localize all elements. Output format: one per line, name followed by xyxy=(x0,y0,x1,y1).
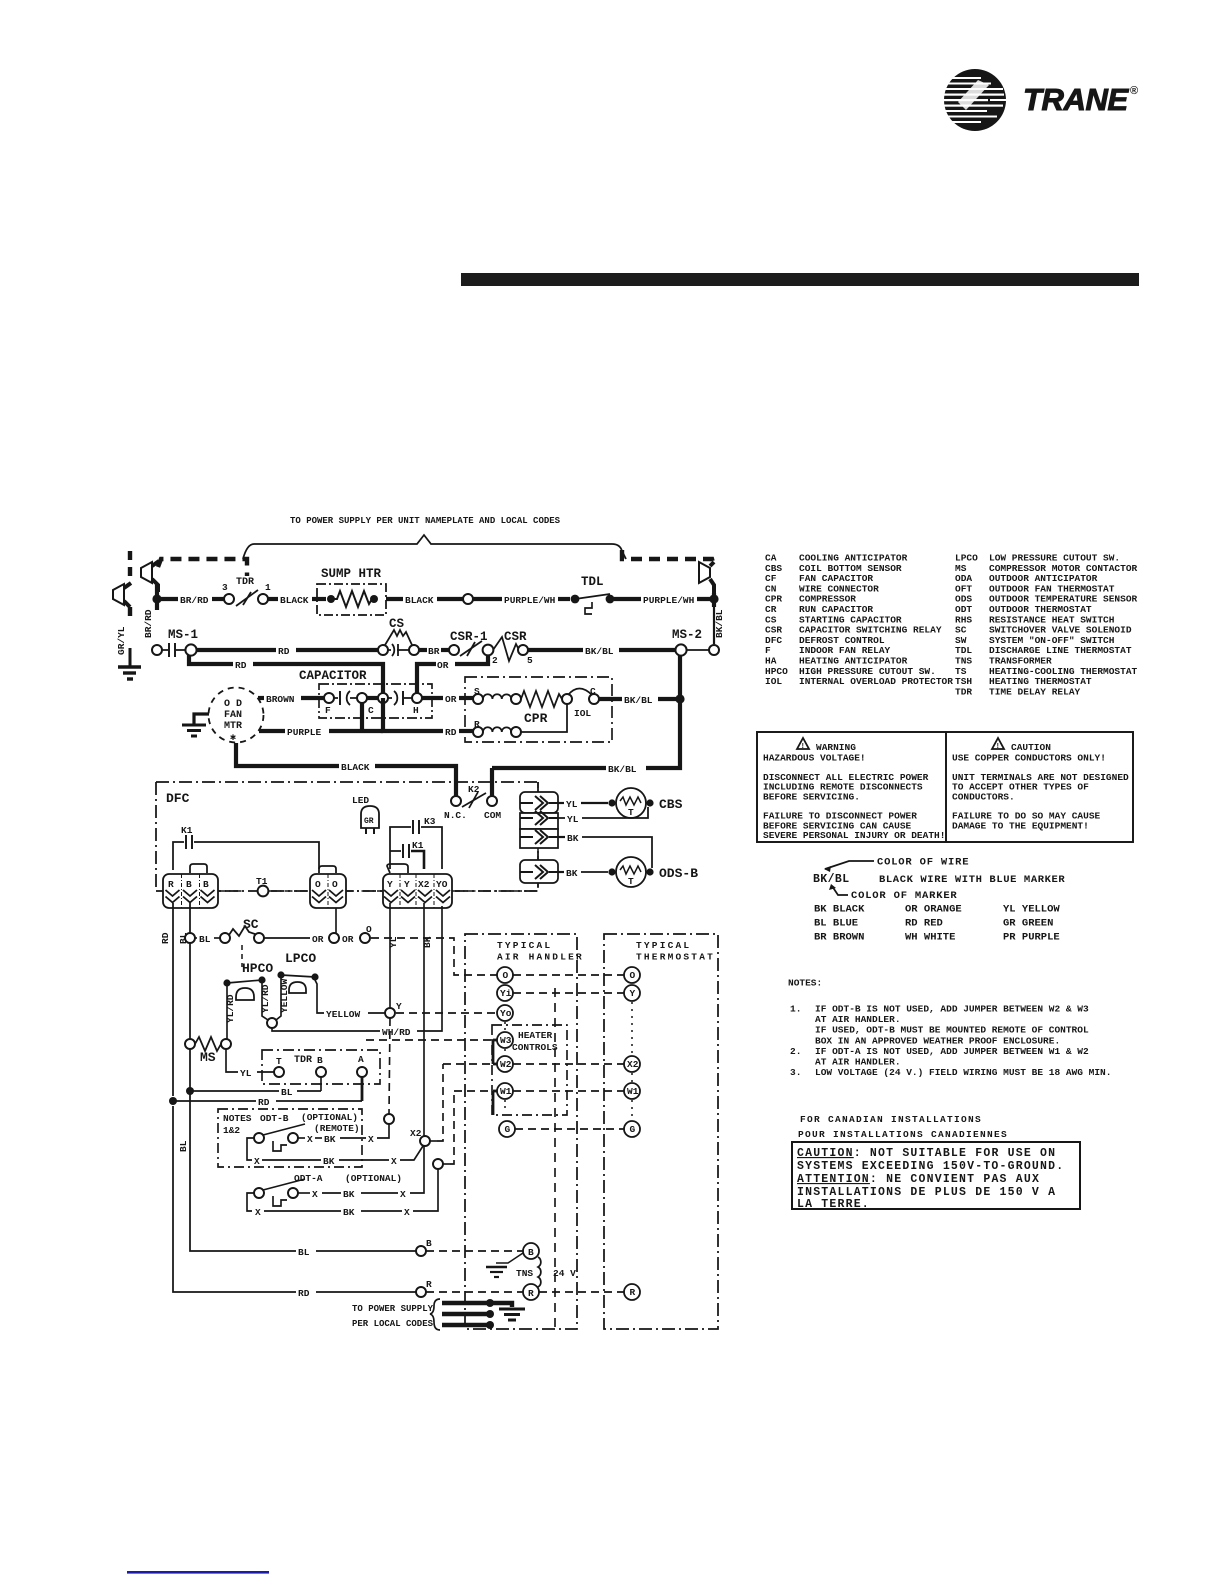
svg-text:(OPTIONAL): (OPTIONAL) xyxy=(301,1112,358,1123)
svg-text:TIME DELAY RELAY: TIME DELAY RELAY xyxy=(989,686,1081,697)
svg-text:BK: BK xyxy=(567,833,579,844)
contactor contact MS-2 xyxy=(672,628,719,656)
wire: BK/BL to MS-2 xyxy=(528,648,583,652)
wire: BLACK to sump heater xyxy=(268,597,278,601)
svg-text:TNS: TNS xyxy=(516,1268,533,1279)
wire: W2 to X2 dashed xyxy=(443,1063,624,1065)
DIAG_MID xyxy=(152,617,719,796)
svg-text:X2: X2 xyxy=(410,1128,422,1139)
svg-text:O: O xyxy=(630,970,636,981)
TRANE logo xyxy=(940,69,1138,131)
svg-text:CONTROLS: CONTROLS xyxy=(512,1042,558,1053)
svg-text:THERMOSTAT: THERMOSTAT xyxy=(636,952,715,963)
wire: ODT-B lower X BK X to X2 node xyxy=(247,1138,423,1167)
terminal G air handler xyxy=(499,1121,515,1137)
wire: BK vertical X2 terminal down xyxy=(423,903,425,1136)
terminal W2 air handler xyxy=(497,1056,513,1072)
legend abbreviation table xyxy=(765,553,1138,698)
wire: BR to CSR-1 xyxy=(419,648,427,652)
svg-text:F: F xyxy=(325,705,331,716)
svg-text:BL: BL xyxy=(298,1247,310,1258)
svg-text:YL: YL xyxy=(566,799,578,810)
terminal W3 air handler xyxy=(497,1032,513,1048)
svg-text:SUMP HTR: SUMP HTR xyxy=(321,567,382,581)
terminal block Y Y X2 YO xyxy=(383,874,452,908)
svg-text:5: 5 xyxy=(527,655,533,666)
svg-text:BK BLACK: BK BLACK xyxy=(814,904,865,916)
svg-text:BLACK WIRE WITH BLUE MARKER: BLACK WIRE WITH BLUE MARKER xyxy=(879,874,1065,886)
svg-text:O: O xyxy=(366,924,372,935)
svg-text:YL: YL xyxy=(567,814,579,825)
svg-text:CONDUCTORS.: CONDUCTORS. xyxy=(952,791,1015,802)
svg-text:BR: BR xyxy=(428,646,440,657)
svg-text:✱: ✱ xyxy=(230,733,236,744)
transformer TNS xyxy=(486,1243,576,1300)
svg-text:OR: OR xyxy=(437,660,449,671)
svg-text:BK: BK xyxy=(343,1207,355,1218)
defrost control board DFC box xyxy=(156,782,538,891)
wire: GR/YL ground lead dashed xyxy=(128,551,132,583)
svg-text:TYPICAL: TYPICAL xyxy=(636,940,691,951)
field wiring split dashed xyxy=(554,988,556,1329)
jumper B to B xyxy=(190,864,207,873)
svg-text:RD RED: RD RED xyxy=(905,918,943,930)
svg-text:X2: X2 xyxy=(627,1059,639,1070)
wire: PURPLE fan to C and R xyxy=(259,729,285,733)
svg-text:YELLOW: YELLOW xyxy=(279,978,290,1013)
svg-text:B: B xyxy=(203,879,209,890)
svg-text:Yo: Yo xyxy=(500,1008,512,1019)
wire: BR/RD line L1 xyxy=(157,597,178,601)
svg-text:COLOR OF MARKER: COLOR OF MARKER xyxy=(851,890,958,902)
svg-text:!: ! xyxy=(997,743,999,750)
wire: YL from MS to TDR T xyxy=(226,1049,238,1072)
svg-text:YL: YL xyxy=(240,1068,252,1079)
svg-text:INTERNAL OVERLOAD PROTECTOR: INTERNAL OVERLOAD PROTECTOR xyxy=(799,676,953,687)
wire: BK/BL CPR C to main drop xyxy=(599,697,622,701)
wire: W1 row dashed xyxy=(454,1090,624,1092)
svg-text:3.: 3. xyxy=(790,1067,801,1078)
svg-text:BK: BK xyxy=(343,1189,355,1200)
svg-text:W1: W1 xyxy=(500,1086,512,1097)
ground symbol G2 at fan motor xyxy=(182,714,209,736)
wire: X2 to W2 dashed riser xyxy=(430,1140,437,1142)
wire: ODT-B upper X BK X to Y node xyxy=(298,1124,389,1145)
svg-text:RD: RD xyxy=(160,932,171,944)
terminal Yo air handler xyxy=(497,1005,513,1021)
svg-text:K3: K3 xyxy=(424,816,436,827)
terminal W1 air handler xyxy=(497,1083,513,1099)
svg-text:W3: W3 xyxy=(500,1035,512,1046)
svg-text:!: ! xyxy=(802,743,804,750)
svg-text:BR/RD: BR/RD xyxy=(143,609,154,638)
svg-text:GR GREEN: GR GREEN xyxy=(1003,918,1053,930)
thermostat switch TDL xyxy=(571,575,615,614)
svg-text:BK: BK xyxy=(323,1156,335,1167)
wire: dashed Y node to Yo xyxy=(396,1012,497,1014)
svg-text:BK/BL: BK/BL xyxy=(714,609,725,638)
wire: RD label on R feed xyxy=(296,1286,316,1299)
svg-text:ATTENTION: NE CONVIENT PAS AUX: ATTENTION: NE CONVIENT PAS AUX xyxy=(797,1173,1040,1186)
svg-text:PURPLE/WH: PURPLE/WH xyxy=(643,595,695,606)
svg-text:RD: RD xyxy=(258,1097,270,1108)
svg-text:SEVERE PERSONAL INJURY OR DEAT: SEVERE PERSONAL INJURY OR DEATH! xyxy=(763,830,945,841)
svg-text:BR BROWN: BR BROWN xyxy=(814,932,864,944)
svg-text:TDR: TDR xyxy=(236,577,254,588)
svg-text:1&2: 1&2 xyxy=(223,1125,240,1136)
svg-text:NOTES: NOTES xyxy=(223,1113,252,1124)
wire: dashed field power feed left xyxy=(158,559,247,576)
heater control bus bars xyxy=(492,1040,495,1064)
svg-text:K1: K1 xyxy=(412,840,424,851)
jumper O to O xyxy=(319,866,336,873)
svg-text:TO POWER SUPPLY PER UNIT NAMEP: TO POWER SUPPLY PER UNIT NAMEPLATE AND L… xyxy=(290,516,561,526)
svg-text:LED: LED xyxy=(352,795,369,806)
svg-text:PURPLE/WH: PURPLE/WH xyxy=(504,595,556,606)
svg-text:X: X xyxy=(391,1156,397,1167)
svg-text:IF USED, ODT-B MUST BE MOUNTED: IF USED, ODT-B MUST BE MOUNTED REMOTE OF… xyxy=(815,1025,1089,1036)
compressor CPR assembly xyxy=(465,677,612,742)
svg-text:TYPICAL: TYPICAL xyxy=(497,940,552,951)
relay coil CSR xyxy=(493,630,533,666)
starting capacitor CS xyxy=(378,617,419,656)
svg-text:W1: W1 xyxy=(627,1086,639,1097)
svg-text:LA TERRE.: LA TERRE. xyxy=(797,1198,870,1211)
svg-text:DFC: DFC xyxy=(166,791,190,806)
svg-text:TRANE: TRANE xyxy=(1023,82,1129,117)
terminal O thermostat xyxy=(624,967,640,983)
svg-text:CS: CS xyxy=(389,617,405,631)
svg-text:X2: X2 xyxy=(418,879,430,890)
svg-text:PURPLE: PURPLE xyxy=(287,727,322,738)
jumper Y to Y xyxy=(387,864,408,873)
wire: ODT-A lower X BK X to W1 riser circle xyxy=(247,1169,438,1218)
svg-text:HAZARDOUS VOLTAGE!: HAZARDOUS VOLTAGE! xyxy=(763,753,866,764)
wire: ODT-A upper X BK X to X2 node xyxy=(298,1146,424,1200)
terminal R low voltage xyxy=(416,1287,426,1297)
pressure switch HPCO xyxy=(223,961,273,1000)
svg-text:HPCO: HPCO xyxy=(242,961,273,976)
wire: PURPLE/WH to right junction xyxy=(614,597,641,601)
svg-text:Y: Y xyxy=(387,879,393,890)
dash-dot between O O and Y group xyxy=(346,890,383,892)
terminal G thermostat xyxy=(624,1121,640,1137)
svg-text:G: G xyxy=(630,1124,636,1135)
brace under power supply note xyxy=(243,535,626,559)
svg-text:MS: MS xyxy=(200,1050,216,1065)
wire: BROWN fan to F xyxy=(258,696,264,700)
terminal O air handler xyxy=(497,967,513,983)
svg-text:YL/RD: YL/RD xyxy=(225,994,236,1023)
relay contact K1 (Y to X2) xyxy=(390,840,424,869)
terminal block O O xyxy=(310,874,346,908)
svg-text:B: B xyxy=(426,1238,432,1249)
svg-text:®: ® xyxy=(1130,85,1138,97)
node: W1 riser circle xyxy=(433,1159,443,1169)
svg-text:AIR HANDLER: AIR HANDLER xyxy=(497,952,584,963)
wire: BL vertical from terminal B xyxy=(189,903,191,933)
wire: BL label on B feed xyxy=(296,1245,316,1258)
svg-text:TO POWER SUPPLY: TO POWER SUPPLY xyxy=(352,1304,434,1314)
svg-text:(OPTIONAL): (OPTIONAL) xyxy=(345,1173,402,1184)
terminal Y thermostat xyxy=(624,985,640,1001)
svg-text:BL: BL xyxy=(199,934,211,945)
svg-text:FOR CANADIAN INSTALLATIONS: FOR CANADIAN INSTALLATIONS xyxy=(800,1114,982,1125)
relay contact K1 (to O terminal) xyxy=(173,825,319,870)
svg-text:OR ORANGE: OR ORANGE xyxy=(905,904,962,916)
sensor CBS coil bottom sensor xyxy=(558,788,683,825)
svg-text:X: X xyxy=(255,1207,261,1218)
svg-text:W2: W2 xyxy=(500,1059,512,1070)
svg-text:CPR: CPR xyxy=(524,711,548,726)
svg-text:O: O xyxy=(503,970,509,981)
svg-text:G: G xyxy=(505,1124,511,1135)
svg-text:N.C.: N.C. xyxy=(444,810,467,821)
typical air handler box xyxy=(465,934,577,1329)
svg-text:MTR: MTR xyxy=(224,721,242,732)
connector plug P3 upper-right xyxy=(699,562,714,593)
svg-text:PR PURPLE: PR PURPLE xyxy=(1003,932,1060,944)
svg-text:C: C xyxy=(590,686,596,697)
wire: BL row to TDR B xyxy=(190,1090,279,1092)
svg-text:CSR: CSR xyxy=(504,630,527,644)
svg-text:AT AIR HANDLER.: AT AIR HANDLER. xyxy=(815,1057,901,1068)
wire: terminal strip dotted links air handler xyxy=(504,1022,506,1112)
wire: dashed Y node to ODT-B xyxy=(389,1018,390,1114)
svg-text:RD: RD xyxy=(445,727,457,738)
svg-text:1.: 1. xyxy=(790,1004,801,1015)
color of wire legend xyxy=(813,857,1065,944)
wire: OR from H to CPR S xyxy=(422,696,443,700)
connector plug P2 lower-left (ground plug) xyxy=(113,583,131,607)
terminal X2 thermostat xyxy=(624,1056,640,1072)
svg-text:IF ODT-A IS NOT USED, ADD JUMP: IF ODT-A IS NOT USED, ADD JUMPER BETWEEN… xyxy=(815,1046,1089,1057)
svg-text:YL/RD: YL/RD xyxy=(260,984,271,1013)
svg-text:T: T xyxy=(276,1056,282,1067)
svg-text:FAN: FAN xyxy=(224,710,242,721)
svg-text:X: X xyxy=(404,1207,410,1218)
svg-text:CBS: CBS xyxy=(659,797,683,812)
dash-dot right of YO xyxy=(452,890,538,892)
node J2 right junction xyxy=(709,594,718,603)
warning caution box xyxy=(757,732,1133,842)
wire: main BK/BL vertical drop xyxy=(492,655,680,768)
svg-text:24 V: 24 V xyxy=(553,1268,576,1279)
relay contact K2 defrost relay xyxy=(444,784,501,821)
time delay relay TDR box xyxy=(262,1050,380,1084)
DIAG_BOXES xyxy=(218,934,718,1330)
run capacitor assembly CAPACITOR xyxy=(299,669,432,718)
svg-text:IF ODT-B IS NOT USED, ADD JUMP: IF ODT-B IS NOT USED, ADD JUMPER BETWEEN… xyxy=(815,1004,1089,1015)
svg-text:Y: Y xyxy=(396,1001,402,1012)
node: RD junction dot xyxy=(169,1097,177,1105)
svg-text:MS-2: MS-2 xyxy=(672,628,702,642)
node: splice circle on L1 xyxy=(463,594,473,604)
ground symbol G1 xyxy=(118,667,141,679)
svg-text:MS-1: MS-1 xyxy=(168,628,198,642)
wire: terminal strip dotted links thermostat xyxy=(631,1002,633,1120)
svg-text:H: H xyxy=(413,705,419,716)
svg-text:ODT-A: ODT-A xyxy=(294,1173,323,1184)
terminal T1 xyxy=(218,876,310,896)
svg-text:A: A xyxy=(358,1054,364,1065)
wire: RD vertical from terminal R xyxy=(172,903,174,1096)
contactor contact MS-1 xyxy=(152,628,198,657)
svg-text:ODS-B: ODS-B xyxy=(659,866,698,881)
svg-text:YO: YO xyxy=(436,879,448,890)
bottom blue rule xyxy=(127,1571,269,1574)
wire: RD run 2 down to capacitor common xyxy=(189,655,233,664)
svg-text:WARNING: WARNING xyxy=(816,742,856,753)
terminal Yi air handler xyxy=(497,985,513,1001)
svg-text:POUR INSTALLATIONS CANADIENNES: POUR INSTALLATIONS CANADIENNES xyxy=(798,1129,1008,1140)
svg-text:C: C xyxy=(368,705,374,716)
svg-text:OR: OR xyxy=(445,694,457,705)
svg-text:Y: Y xyxy=(630,988,636,999)
svg-text:BK/BL: BK/BL xyxy=(624,695,653,706)
svg-text:R: R xyxy=(630,1287,636,1298)
svg-text:RD: RD xyxy=(235,660,247,671)
svg-text:YELLOW: YELLOW xyxy=(326,1009,361,1020)
node: junction circle YL/RD YELLOW xyxy=(267,1018,277,1028)
svg-text:O D: O D xyxy=(224,699,242,710)
svg-text:BOX IN AN APPROVED WEATHER PRO: BOX IN AN APPROVED WEATHER PROOF ENCLOSU… xyxy=(815,1035,1060,1046)
svg-text:SYSTEMS EXCEEDING 150V-TO-GROU: SYSTEMS EXCEEDING 150V-TO-GROUND. xyxy=(797,1160,1064,1173)
node J1 left line junction xyxy=(152,594,161,603)
wire: WH/RD from junction to YO terminal xyxy=(272,1028,380,1031)
wire: PURPLE/WH to TDL xyxy=(473,597,502,601)
wire: Yi to Y dashed xyxy=(513,992,624,994)
svg-text:R: R xyxy=(528,1288,534,1299)
wire: BLACK from sump heater xyxy=(386,597,403,601)
terminal B low voltage xyxy=(416,1246,426,1256)
relay contact CSR-1 xyxy=(449,630,498,666)
svg-text:T: T xyxy=(628,807,634,818)
wire: TDR A drop thick xyxy=(361,1077,364,1101)
svg-text:B: B xyxy=(186,879,192,890)
terminal W1 thermostat xyxy=(624,1083,640,1099)
svg-text:BLACK: BLACK xyxy=(341,762,370,773)
relay contact K3 (Y to YO) xyxy=(390,816,442,869)
DIAG_DFC xyxy=(156,782,698,908)
svg-text:WH WHITE: WH WHITE xyxy=(905,932,955,944)
DIAG_TOP xyxy=(113,516,725,679)
contactor coil MS xyxy=(185,1037,231,1065)
wire: COM drop xyxy=(490,768,494,796)
wire: BLACK fan motor drop to K2 NC xyxy=(236,743,339,766)
outdoor thermostat ODT-B box xyxy=(218,1109,362,1167)
terminal R thermostat xyxy=(624,1284,640,1300)
power supply feed lines xyxy=(352,1299,525,1330)
node: ODT-B series circle on Y line xyxy=(384,1114,394,1124)
svg-text:DAMAGE TO THE EQUIPMENT!: DAMAGE TO THE EQUIPMENT! xyxy=(952,820,1089,831)
svg-text:BEFORE SERVICING.: BEFORE SERVICING. xyxy=(763,791,860,802)
wire: O terminal drop to SC output xyxy=(335,908,337,933)
LED indicator GR xyxy=(352,795,379,834)
svg-text:R: R xyxy=(426,1279,432,1290)
pressure switch LPCO xyxy=(277,951,318,993)
svg-text:BLACK: BLACK xyxy=(405,595,434,606)
wire: LPCO right leg to YELLOW run xyxy=(315,980,324,1013)
svg-text:CAUTION: NOT SUITABLE FOR USE: CAUTION: NOT SUITABLE FOR USE ON xyxy=(797,1147,1056,1160)
svg-text:2: 2 xyxy=(492,655,498,666)
wire: OR branch from CSR terminal 2 xyxy=(455,655,488,664)
notes section xyxy=(788,978,1111,1079)
svg-text:B: B xyxy=(317,1055,323,1066)
svg-text:COM: COM xyxy=(484,810,501,821)
svg-text:R: R xyxy=(168,879,174,890)
wire: dashed B to TNS xyxy=(426,1250,523,1252)
svg-text:B: B xyxy=(528,1247,534,1258)
svg-text:BK: BK xyxy=(566,868,578,879)
outdoor fan motor O D FAN MTR xyxy=(209,688,264,745)
svg-text:O: O xyxy=(332,879,338,890)
outdoor thermostat ODT-A xyxy=(254,1173,402,1206)
wire: RD row to TDR A xyxy=(173,1100,256,1102)
heater controls box xyxy=(492,1025,567,1115)
svg-text:TDR: TDR xyxy=(294,1055,312,1066)
DIAG_LOW xyxy=(160,903,497,1292)
svg-text:BL: BL xyxy=(281,1087,293,1098)
wire: YELLOW LPCO left leg xyxy=(276,978,281,1020)
svg-text:IOL: IOL xyxy=(765,676,782,687)
wire: W1 dashed riser xyxy=(450,1091,454,1164)
sump heater resistor SUMP HTR xyxy=(317,567,386,615)
wire connector CN stack xyxy=(520,782,558,891)
svg-text:GR: GR xyxy=(364,817,374,826)
wire: BK/BL label on lower run xyxy=(606,762,646,775)
svg-text:O: O xyxy=(315,879,321,890)
svg-text:AT AIR HANDLER.: AT AIR HANDLER. xyxy=(815,1014,901,1025)
svg-text:BL BLUE: BL BLUE xyxy=(814,918,858,930)
svg-text:SC: SC xyxy=(243,917,259,932)
svg-text:TDL: TDL xyxy=(581,575,604,589)
connector plug P1 upper-left xyxy=(141,561,159,592)
wire: W3 row dashed xyxy=(366,1039,497,1041)
node Y xyxy=(385,1008,395,1018)
svg-text:COLOR OF WIRE: COLOR OF WIRE xyxy=(877,857,969,869)
switch ODT-B xyxy=(254,1124,305,1151)
svg-text:CAUTION: CAUTION xyxy=(1011,742,1051,753)
svg-text:Y: Y xyxy=(404,879,410,890)
wire: BK/BL drop to MS-2 xyxy=(713,607,715,644)
svg-text:WH/RD: WH/RD xyxy=(382,1027,411,1038)
wire: dashed field power feed right xyxy=(622,550,714,566)
svg-text:(REMOTE): (REMOTE) xyxy=(314,1123,360,1134)
svg-text:LOW VOLTAGE (24 V.) FIELD WIRI: LOW VOLTAGE (24 V.) FIELD WIRING MUST BE… xyxy=(815,1067,1111,1078)
svg-text:IOL: IOL xyxy=(574,708,591,719)
svg-text:3: 3 xyxy=(222,582,228,593)
svg-text:Yi: Yi xyxy=(500,988,512,999)
svg-text:TDR: TDR xyxy=(955,686,972,697)
svg-text:BROWN: BROWN xyxy=(266,694,295,705)
svg-text:T: T xyxy=(628,876,634,887)
svg-text:YL: YL xyxy=(388,936,399,948)
wire: G to G dashed xyxy=(515,1128,624,1130)
svg-text:YL YELLOW: YL YELLOW xyxy=(1003,904,1060,916)
wire: YL/RD HPCO right leg xyxy=(262,983,268,1020)
wire: TDR B drop xyxy=(320,1077,322,1091)
svg-text:X: X xyxy=(400,1189,406,1200)
wire: dashed R to TNS and thermostat R xyxy=(426,1291,624,1293)
svg-text:GR/YL: GR/YL xyxy=(116,626,127,655)
svg-text:BLACK: BLACK xyxy=(280,595,309,606)
svg-text:BR/RD: BR/RD xyxy=(180,595,209,606)
svg-text:K1: K1 xyxy=(181,825,193,836)
typical thermostat box xyxy=(604,934,718,1329)
terminal block R B B xyxy=(163,874,218,908)
node X2 crossover xyxy=(420,1136,430,1146)
